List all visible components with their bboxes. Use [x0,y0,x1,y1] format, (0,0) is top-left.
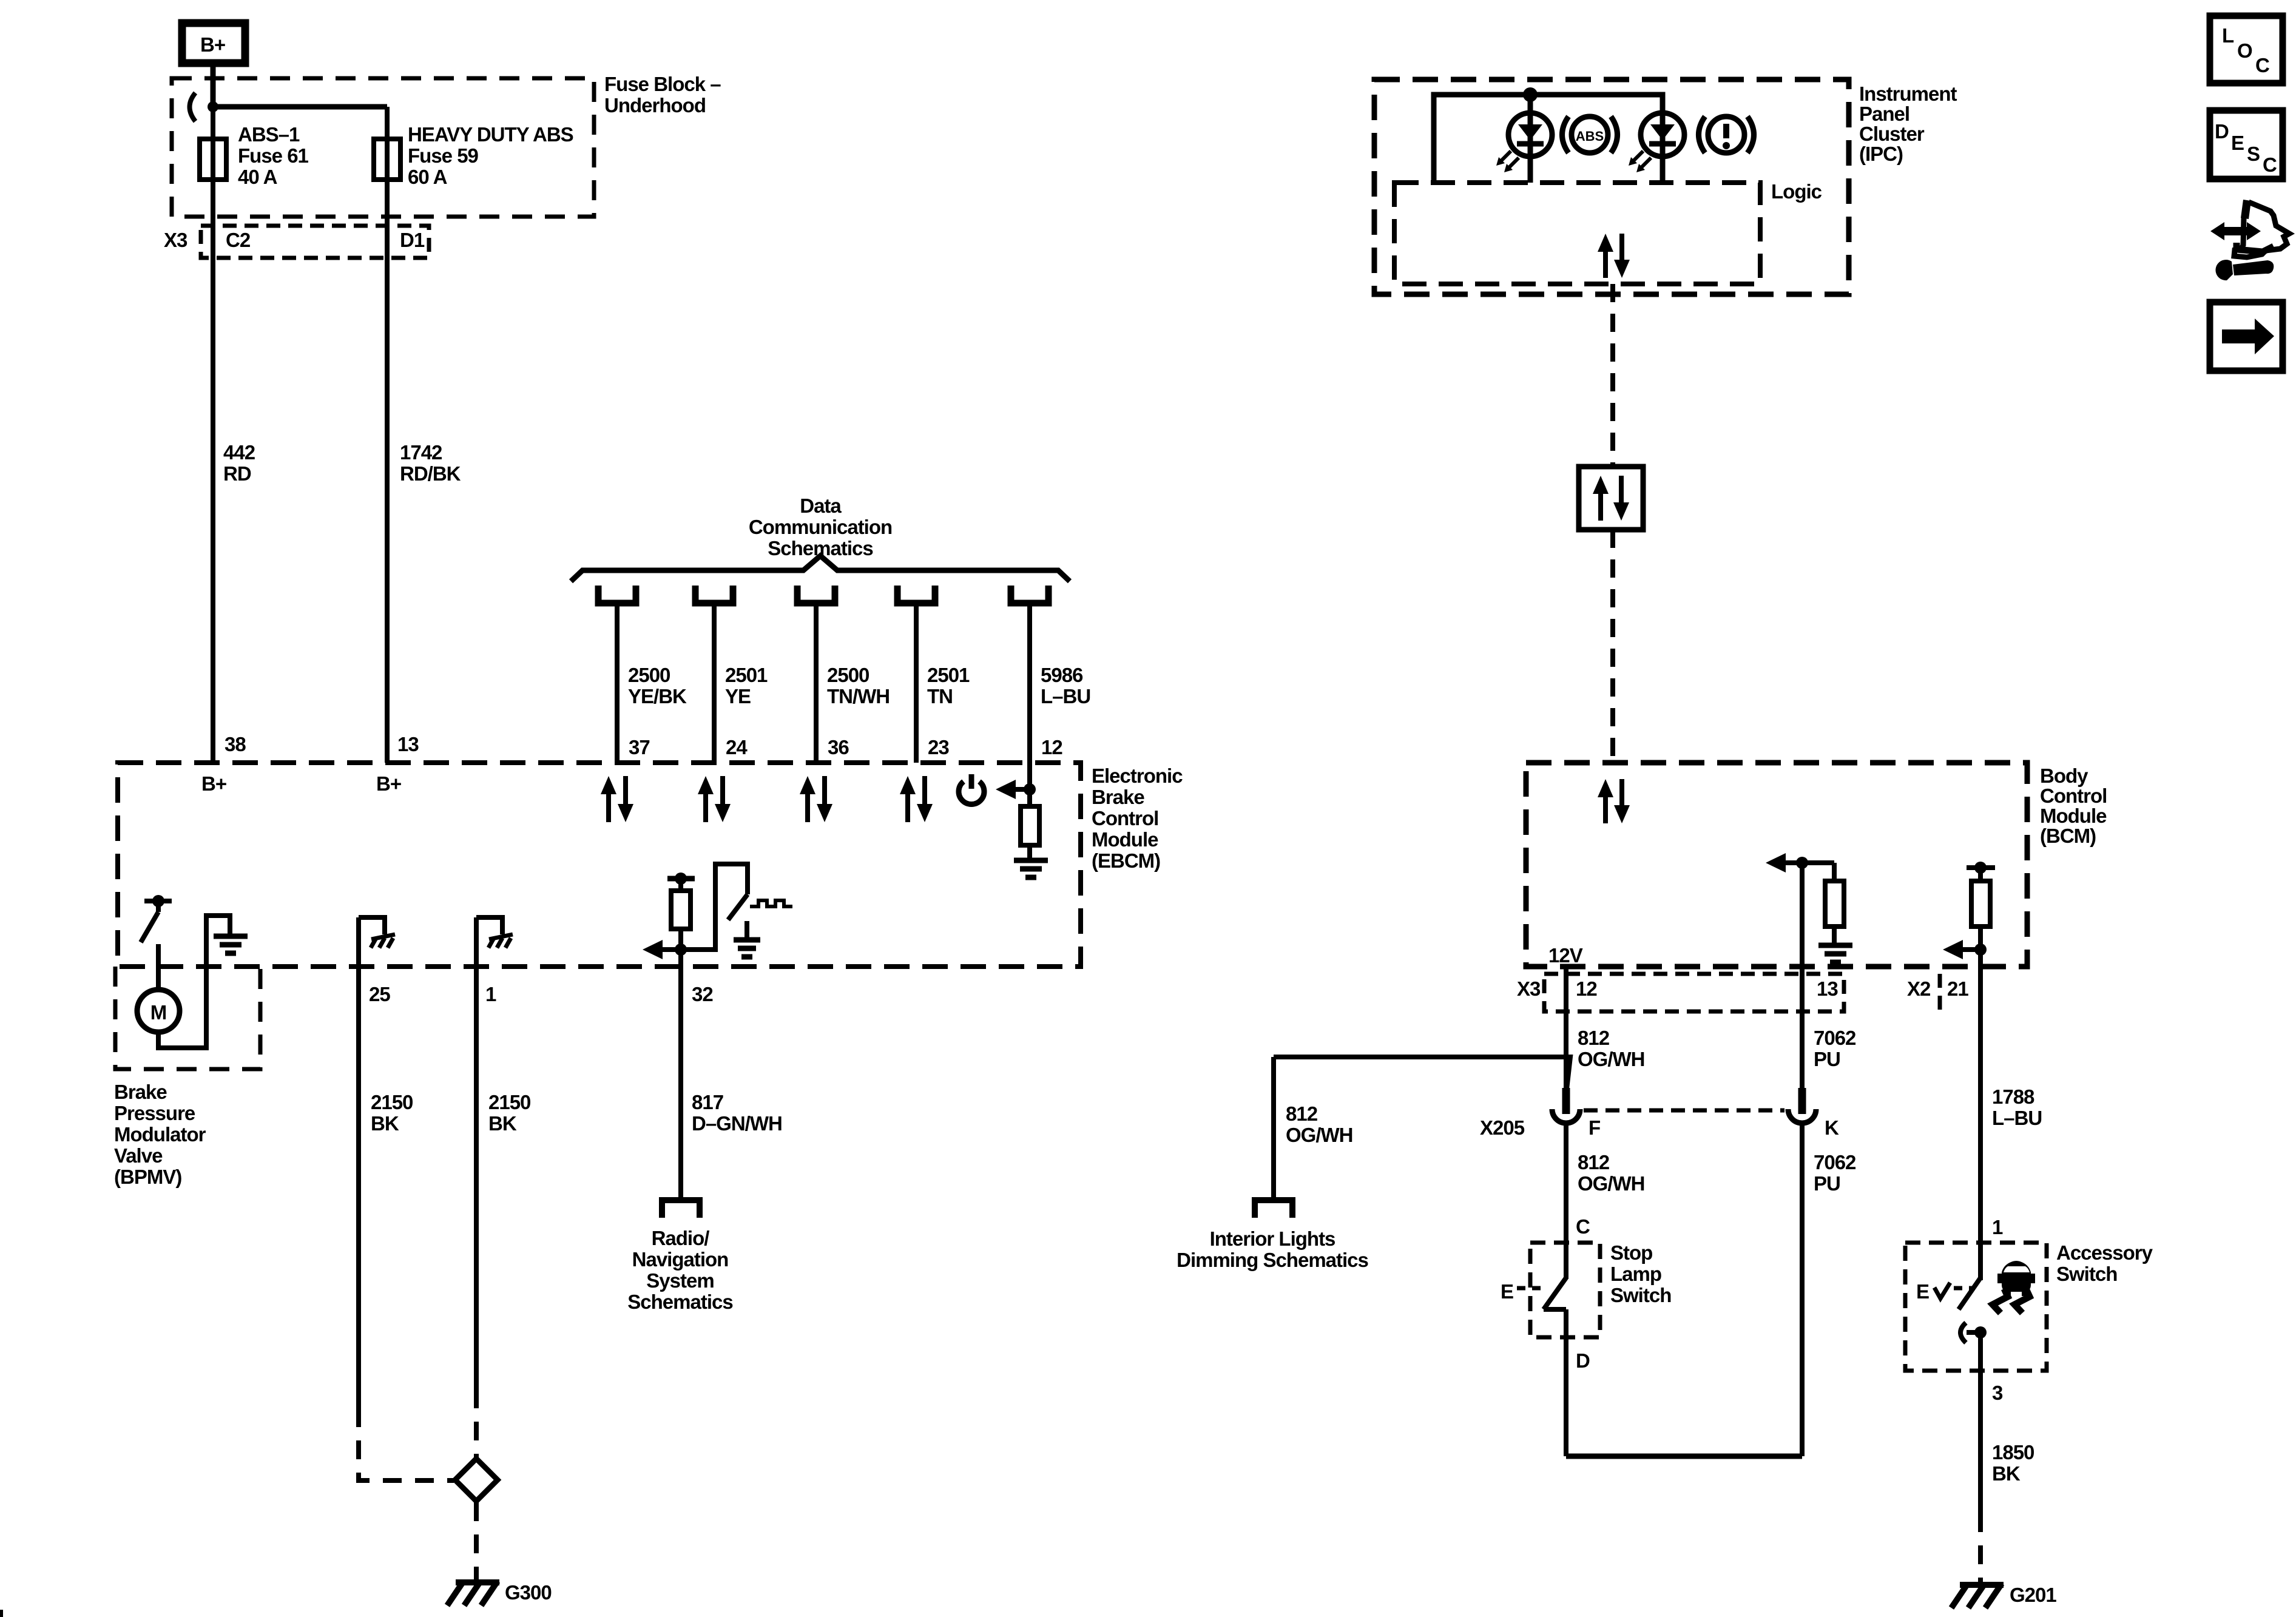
rail tick pin 21 pullup [1967,865,1995,870]
svg-text:Fuse 61: Fuse 61 [238,144,309,167]
svg-text:2501: 2501 [725,664,768,686]
node dot pin 21 [1974,944,1987,956]
wire F to stop lamp switch [1564,1122,1568,1279]
label Body Control Module (BCM) [2040,765,2107,847]
traction control icon [1993,1261,2035,1313]
svg-text:D: D [1576,1349,1590,1372]
IPC feed bus wire [1434,95,1663,183]
LED ABS indicator lamp [1496,113,1552,172]
ground G300 [447,1581,499,1605]
svg-text:36: 36 [828,736,849,758]
svg-text:Control: Control [1092,807,1158,829]
connector stub pin 24 [695,586,733,603]
wire 5986 L-BU [1027,603,1032,789]
svg-text:Schematics: Schematics [627,1291,732,1313]
wire to resistor [1027,789,1032,806]
svg-text:OG/WH: OG/WH [1286,1124,1352,1146]
wire resistor branch pin 13 [1832,863,1837,881]
svg-text:F: F [1589,1116,1600,1139]
resistor EBCM pin 12 [1021,806,1039,845]
label Interior Lights Dimming Schematics [1177,1227,1368,1271]
node dot rail [675,873,687,885]
wire through ABS LED [1528,95,1533,183]
wire label 7062 PU lower [1814,1151,1856,1195]
actuator check mark [1934,1283,1950,1298]
svg-text:BK: BK [1992,1462,2021,1485]
wire label 442 RD [223,441,255,485]
wire rail to resistor [678,879,683,891]
wire junction to fuse 59 [213,104,387,110]
svg-text:37: 37 [629,736,650,758]
svg-text:12V: 12V [1548,944,1583,967]
accessory switch lever [1959,1278,1980,1309]
svg-text:Switch: Switch [1610,1284,1671,1306]
wire loop up to K [1800,1122,1805,1456]
BPMV switch stub [156,901,161,912]
brake warning telltale symbol [1699,116,1754,153]
wire through fuse 59 [385,107,390,763]
svg-text:1: 1 [1992,1216,2003,1238]
X205 socket K [1788,1109,1816,1123]
svg-text:BK: BK [371,1112,399,1135]
accessory switch dashed box [1905,1243,2047,1371]
wire label 7062 PU upper [1814,1027,1856,1070]
svg-text:Lamp: Lamp [1610,1263,1661,1285]
label Instrument Panel Cluster (IPC) [1859,83,1957,165]
dashed wire to G201 [1978,1513,1983,1582]
svg-text:G300: G300 [505,1581,552,1604]
solenoid driver rail tick [667,876,695,882]
svg-text:C: C [2255,54,2269,76]
svg-text:32: 32 [692,983,713,1005]
resistor BCM pin 13 [1825,881,1844,927]
svg-text:24: 24 [726,736,748,758]
svg-text:L–BU: L–BU [1992,1107,2042,1129]
svg-text:13: 13 [1817,977,1838,1000]
svg-text:Data: Data [800,495,842,517]
svg-text:Accessory: Accessory [2056,1241,2153,1264]
accessory moving contact arc [1960,1323,1966,1343]
svg-text:Dimming Schematics: Dimming Schematics [1177,1249,1368,1271]
wire 1788 pin 21 down [1978,950,1983,1280]
svg-text:817: 817 [692,1091,723,1113]
ground G201 [1951,1584,2004,1608]
wire resistor to node [1978,927,1983,950]
wire label 812 OG/WH upper [1578,1027,1644,1070]
accessory contact bar [1967,1330,1980,1335]
svg-text:Fuse 59: Fuse 59 [408,144,479,167]
svg-text:X2: X2 [1907,977,1931,1000]
Data Communication Schematics label [749,495,892,559]
BCM connector X3 dashed box [1544,974,1844,1011]
dashed serial data wire IPC to box [1610,284,1615,467]
svg-text:Underhood: Underhood [604,94,706,116]
svg-text:S: S [2247,143,2260,165]
svg-text:X3: X3 [1517,977,1541,1000]
svg-text:25: 25 [369,983,390,1005]
svg-text:Brake: Brake [114,1081,167,1103]
connector stub pin 36 [797,586,835,603]
svg-text:Switch: Switch [2056,1263,2117,1285]
svg-text:23: 23 [928,736,949,758]
bidirectional arrows pin 24 [698,776,731,822]
square wave control symbol [750,900,792,906]
svg-text:YE: YE [725,685,751,707]
svg-text:TN: TN [927,685,953,707]
connector stub interior lights [1255,1200,1292,1218]
svg-text:7062: 7062 [1814,1151,1856,1173]
svg-text:1: 1 [485,983,496,1005]
svg-text:Control: Control [2040,785,2107,807]
svg-text:B+: B+ [376,772,401,795]
power symbol [959,774,984,804]
Fuse Block - Underhood dashed box [172,78,594,217]
wire to resistor pin 21 [1978,868,1983,881]
ground EBCM pin 12 [1014,860,1048,877]
svg-text:E: E [1916,1280,1929,1303]
ground BPMV return [214,936,248,953]
svg-text:D: D [2215,120,2229,143]
svg-text:RD/BK: RD/BK [400,462,461,485]
next page arrow box [2210,302,2283,371]
svg-text:(BPMV): (BPMV) [114,1166,181,1188]
wire pin 32 out [678,950,683,1198]
LED brake indicator lamp [1629,113,1684,172]
svg-text:Interior Lights: Interior Lights [1210,1227,1335,1250]
wire 2501 TN [914,603,919,763]
svg-text:ABS–1: ABS–1 [238,123,300,146]
wire 2150 BK pin 25 [356,967,361,1408]
svg-text:1850: 1850 [1992,1441,2034,1463]
diagnostic hand tool icon [2210,200,2289,280]
svg-text:Communication: Communication [749,516,892,538]
label Radio Navigation System Schematics [627,1227,732,1313]
X205 pin stub K [1798,1088,1806,1114]
wire motor return loop [158,916,230,1048]
connector stub pin 37 [598,586,636,603]
wire node to switch [681,864,748,950]
svg-text:K: K [1825,1116,1839,1139]
bidirectional arrows pin 37 [601,776,633,822]
svg-text:60 A: 60 A [408,166,447,188]
brace [571,556,1070,581]
svg-text:E: E [1501,1280,1513,1303]
node dot pin 12 [1024,783,1036,795]
svg-text:12: 12 [1041,736,1062,758]
bidirectional arrows pin 36 [800,776,832,822]
BPMV switch node dot [152,895,164,907]
svg-text:OG/WH: OG/WH [1578,1048,1644,1070]
svg-text:C2: C2 [226,229,251,251]
wire loop bottom [1566,1454,1802,1459]
fuse 61 ABS-1 40A [200,139,226,180]
motor M pump [137,990,180,1032]
wire switch to motor [156,944,161,990]
serial data interface box [1579,467,1643,530]
svg-text:PU: PU [1814,1172,1840,1195]
svg-text:X3: X3 [164,229,187,251]
stop lamp switch lever [1544,1278,1566,1309]
svg-text:Navigation: Navigation [632,1248,729,1271]
wire 812 pin 12 [1564,967,1568,1089]
svg-text:G201: G201 [2010,1584,2056,1606]
Logic dashed box [1394,183,1760,284]
wire resistor to node [678,929,683,950]
svg-text:1788: 1788 [1992,1085,2034,1108]
label Brake Pressure Modulator Valve (BPMV) [114,1081,206,1188]
node dot contact [1974,1326,1987,1338]
internal ground hook pin 1 [476,917,513,967]
svg-text:Logic: Logic [1771,180,1822,203]
svg-text:Body: Body [2040,765,2088,787]
svg-text:Radio/: Radio/ [652,1227,710,1249]
svg-text:13: 13 [397,733,419,755]
node dot pin 13 [1796,857,1808,869]
wire 2150 BK pin 1 [474,967,479,1389]
ABS telltale symbol [1562,116,1618,153]
svg-text:2150: 2150 [488,1091,530,1113]
svg-text:1742: 1742 [400,441,442,464]
svg-text:C: C [2263,154,2277,176]
svg-text:Module: Module [2040,805,2107,827]
svg-text:(EBCM): (EBCM) [1092,849,1160,872]
battery feed B+ terminal box [182,23,245,63]
svg-text:M: M [150,1001,167,1024]
svg-text:38: 38 [225,733,246,755]
dashed serial data wire box to BCM [1610,530,1615,763]
svg-text:B+: B+ [200,33,225,56]
LOC legend box [2210,16,2283,83]
label Fuse Block - Underhood [604,73,721,116]
resistor BCM pin 21 [1971,881,1990,927]
svg-text:21: 21 [1947,977,1968,1000]
connector stub pin 23 [897,586,935,603]
wire 2500 TN/WH [814,603,819,763]
wire pin 13 down [1800,863,1805,1089]
connector X3 dashed box [201,226,429,258]
svg-text:812: 812 [1578,1151,1610,1173]
svg-text:Valve: Valve [114,1144,163,1167]
svg-text:812: 812 [1578,1027,1610,1049]
X205 socket F [1552,1109,1580,1123]
svg-text:Fuse Block –: Fuse Block – [604,73,721,95]
wire through fuse 61 [211,107,215,763]
connector stub pin 12 [1011,586,1048,603]
svg-text:B+: B+ [201,772,226,795]
svg-text:O: O [2237,39,2252,62]
svg-text:Module: Module [1092,828,1158,851]
connector stub radio [662,1200,700,1218]
X205 dashed connector line [1584,1109,1784,1113]
svg-text:YE/BK: YE/BK [628,685,687,707]
svg-text:812: 812 [1286,1102,1318,1125]
svg-text:D–GN/WH: D–GN/WH [692,1112,782,1135]
switch contact to ground [745,921,749,939]
interior lights dimming feed wire [1274,1057,1570,1089]
svg-text:(BCM): (BCM) [2040,825,2096,847]
label Accessory Switch [2056,1241,2153,1285]
svg-text:40 A: 40 A [238,166,277,188]
internal ground hook pin 25 [359,917,395,967]
node dot bus [1523,87,1538,102]
fuse 59 HEAVY DUTY ABS 60A [374,139,400,180]
arrow into pin 12 node [996,780,1030,799]
wire label 1788 L-BU [1992,1085,2042,1129]
svg-text:2501: 2501 [927,664,970,686]
svg-text:E: E [2231,132,2244,154]
svg-text:5986: 5986 [1041,664,1083,686]
svg-text:2150: 2150 [371,1091,413,1113]
svg-text:(IPC): (IPC) [1859,143,1903,165]
X205 pin stub F [1562,1088,1570,1114]
svg-text:L: L [2222,24,2234,47]
wire 2501 YE [712,603,717,763]
ground solenoid switch [734,940,760,957]
stop lamp switch dashed box [1530,1243,1600,1337]
wire resistor to ground [1027,845,1032,859]
svg-text:RD: RD [223,462,251,485]
label Stop Lamp Switch [1610,1241,1671,1306]
resistor solenoid driver [671,891,690,929]
bidirectional arrows pin 23 [900,776,933,822]
svg-text:C: C [1576,1215,1590,1238]
arrow out pin 21 node [1943,940,1980,959]
switch lever EBCM [728,894,748,920]
svg-text:L–BU: L–BU [1041,685,1090,707]
svg-text:2500: 2500 [628,664,670,686]
svg-text:Stop: Stop [1610,1241,1652,1264]
svg-text:Cluster: Cluster [1859,123,1925,145]
svg-text:OG/WH: OG/WH [1578,1172,1644,1195]
svg-text:TN/WH: TN/WH [827,685,890,707]
actuator dashed link [1517,1286,1546,1291]
stop lamp switch contact [1544,1307,1566,1312]
wire B+ to fuse block [211,63,216,107]
splice diamond [455,1459,498,1501]
dashed wire to splice left [359,1408,454,1480]
wire label 1850 BK [1992,1441,2034,1485]
node dot pin 32 branch [675,944,687,956]
svg-text:7062: 7062 [1814,1027,1856,1049]
BPMV dashed box [115,967,260,1069]
wire pin 3 [1978,1332,1983,1513]
wire label 812 OG/WH branch [1286,1102,1352,1146]
label Electronic Brake Control Module (EBCM) [1092,765,1183,872]
svg-text:Electronic: Electronic [1092,765,1183,787]
svg-text:Instrument: Instrument [1859,83,1957,105]
EBCM dashed box [118,763,1081,967]
svg-text:Panel: Panel [1859,103,1909,125]
bidirectional arrows BCM [1598,779,1630,823]
svg-text:BK: BK [488,1112,517,1135]
IPC dashed box [1374,79,1849,294]
svg-text:ABS: ABS [1576,129,1604,144]
actuator dashed link [1954,1286,1972,1291]
BPMV rail tick [144,899,172,903]
DESC legend box [2210,110,2283,179]
connector X2 separator [1938,974,1942,1011]
svg-text:X205: X205 [1480,1116,1525,1139]
svg-text:442: 442 [223,441,255,464]
svg-text:Brake: Brake [1092,786,1144,808]
svg-text:2500: 2500 [827,664,869,686]
svg-text:PU: PU [1814,1048,1840,1070]
svg-text:3: 3 [1992,1382,2003,1404]
wire D to loop [1564,1309,1568,1456]
hook arc at B+ entry [190,93,196,121]
wire label 1742 RD/BK [400,441,461,485]
svg-text:D1: D1 [400,229,425,251]
BCM dashed box [1526,763,2027,967]
bidirectional arrows IPC logic [1598,234,1630,278]
dashed wire splice to G300 [474,1502,479,1580]
BPMV switch lever [141,912,158,942]
node junction dot [208,101,218,112]
bidirectional arrows interface box [1593,476,1629,521]
arrow out left [643,940,681,959]
dashed wire to splice top [474,1389,479,1457]
wire label 812 OG/WH lower [1578,1151,1644,1195]
arrow into pin 13 node [1766,853,1834,873]
wire 2500 YE/BK [615,603,620,763]
svg-text:12: 12 [1576,977,1597,1000]
svg-text:System: System [646,1269,714,1292]
svg-text:HEAVY DUTY ABS: HEAVY DUTY ABS [408,123,573,146]
svg-text:Pressure: Pressure [114,1102,195,1124]
node dot pullup top [1974,862,1987,874]
wire resistor to ground [1832,927,1837,944]
page corner mark [0,1610,3,1617]
wire to interior lights connector [1271,1057,1276,1200]
wire 817 D-GN/WH [692,1091,782,1135]
svg-text:Modulator: Modulator [114,1123,206,1146]
ground BCM pin 13 [1818,945,1852,962]
